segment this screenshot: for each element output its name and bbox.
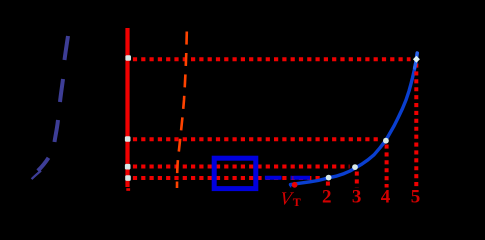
dotted ordinate at x=2	[326, 182, 330, 188]
dotted ordinate at x=5	[414, 64, 418, 188]
svg-text:2: 2	[322, 186, 332, 207]
dashed magnified exponential curve: dash 3	[55, 120, 59, 142]
dashed magnified exponential curve: dash 1	[65, 36, 69, 60]
node dot e^3 on axis	[125, 164, 131, 170]
svg-text:4: 4	[381, 186, 391, 207]
svg-text:5: 5	[411, 186, 421, 207]
dashed magnified exponential curve: dash 4	[38, 158, 49, 171]
curve point at x=3	[352, 164, 358, 170]
dotted ordinate at x=3	[355, 172, 359, 188]
dashed magnified exponential curve: dash 2	[60, 79, 63, 102]
blue axis tick at V_T	[290, 183, 292, 187]
curve point diamond at x=5	[413, 56, 420, 63]
dotted level line e^3	[133, 165, 350, 169]
node dot e^2 on axis	[125, 175, 131, 181]
svg-text:3: 3	[352, 186, 362, 207]
main exponential curve	[291, 53, 418, 185]
dashed magnified exponential curve: dash 5	[32, 171, 41, 179]
blue dash-dot level segment	[265, 176, 310, 180]
red point marker at V_T	[292, 182, 298, 188]
dotted level line e^2	[133, 176, 323, 180]
curve bright tip	[415, 53, 418, 68]
dotted ordinate at x=4	[385, 145, 389, 188]
blue zoom rectangle	[214, 158, 256, 188]
node dot e^4 on axis	[125, 136, 131, 142]
dotted level line e^5	[133, 57, 411, 61]
curve point at x=4	[383, 138, 389, 144]
red axis tick fragment	[126, 188, 130, 191]
svg-text:T: T	[293, 195, 301, 209]
node dot e^5 on axis	[125, 55, 131, 61]
dotted level line e^4	[133, 137, 380, 141]
red vertical axis line	[125, 28, 129, 187]
orange dashed curve	[177, 32, 187, 189]
curve point at x=2	[326, 175, 332, 181]
